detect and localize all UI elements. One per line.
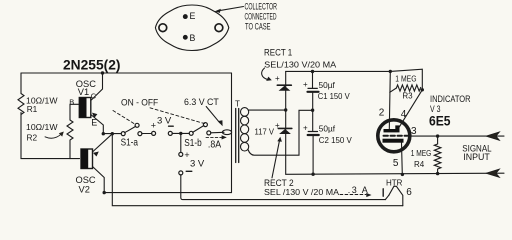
svg-text:T: T	[235, 99, 240, 108]
svg-text:S1-a: S1-a	[121, 138, 139, 149]
svg-text:INDICATOR: INDICATOR	[430, 94, 471, 104]
svg-text:CONNECTED: CONNECTED	[245, 11, 277, 21]
svg-text:V1: V1	[78, 87, 89, 97]
svg-text:C2 150 V: C2 150 V	[319, 135, 352, 145]
svg-text:3 V: 3 V	[157, 116, 172, 127]
svg-text:R4: R4	[414, 160, 425, 169]
svg-text:+: +	[303, 124, 308, 133]
svg-text:50µf: 50µf	[319, 80, 336, 90]
svg-text:SEL /130 V /20 MA: SEL /130 V /20 MA	[264, 188, 340, 197]
svg-text:+: +	[151, 120, 156, 130]
svg-text:.3 A: .3 A	[348, 185, 368, 195]
svg-text:10Ω/1W: 10Ω/1W	[26, 122, 58, 132]
svg-text:2N255(2): 2N255(2)	[63, 57, 121, 73]
svg-text:S1-b: S1-b	[184, 138, 202, 149]
svg-text:1 MEG: 1 MEG	[411, 149, 432, 158]
svg-text:HTR: HTR	[386, 179, 403, 188]
svg-text:OSC: OSC	[76, 175, 96, 185]
svg-text:C1 150 V: C1 150 V	[318, 91, 350, 101]
svg-text:E: E	[190, 11, 196, 21]
svg-text:3 V: 3 V	[190, 158, 205, 169]
svg-text:+: +	[275, 121, 280, 130]
svg-text:4: 4	[401, 109, 407, 120]
svg-text:+: +	[184, 150, 189, 160]
svg-text:COLLECTOR: COLLECTOR	[245, 2, 278, 12]
svg-text:+: +	[303, 80, 308, 89]
svg-text:6: 6	[406, 187, 412, 198]
svg-text:.8A: .8A	[208, 140, 221, 151]
svg-text:C: C	[91, 92, 97, 101]
svg-text:B: B	[69, 97, 74, 106]
svg-text:RECT 2: RECT 2	[264, 178, 294, 188]
svg-text:E: E	[91, 117, 97, 127]
svg-text:SEL/130 V/20 MA: SEL/130 V/20 MA	[264, 60, 337, 69]
svg-text:ON - OFF: ON - OFF	[121, 97, 159, 107]
svg-text:50µf: 50µf	[319, 124, 336, 134]
svg-text:RECT 1: RECT 1	[264, 48, 292, 58]
svg-text:3: 3	[411, 126, 417, 137]
svg-text:R2: R2	[27, 132, 38, 142]
svg-text:6.3 V CT: 6.3 V CT	[184, 97, 219, 107]
svg-text:117 V: 117 V	[255, 127, 275, 137]
svg-text:R3: R3	[402, 91, 413, 100]
svg-text:6E5: 6E5	[429, 112, 451, 128]
svg-text:2: 2	[379, 108, 385, 119]
svg-text:INPUT: INPUT	[463, 152, 490, 162]
svg-text:V2: V2	[79, 185, 90, 195]
svg-text:1 MEG: 1 MEG	[395, 75, 416, 84]
svg-text:TO CASE: TO CASE	[245, 22, 271, 32]
svg-text:R1: R1	[27, 104, 38, 114]
svg-text:5: 5	[393, 158, 399, 169]
svg-text:+: +	[275, 74, 280, 83]
svg-text:B: B	[190, 33, 196, 43]
